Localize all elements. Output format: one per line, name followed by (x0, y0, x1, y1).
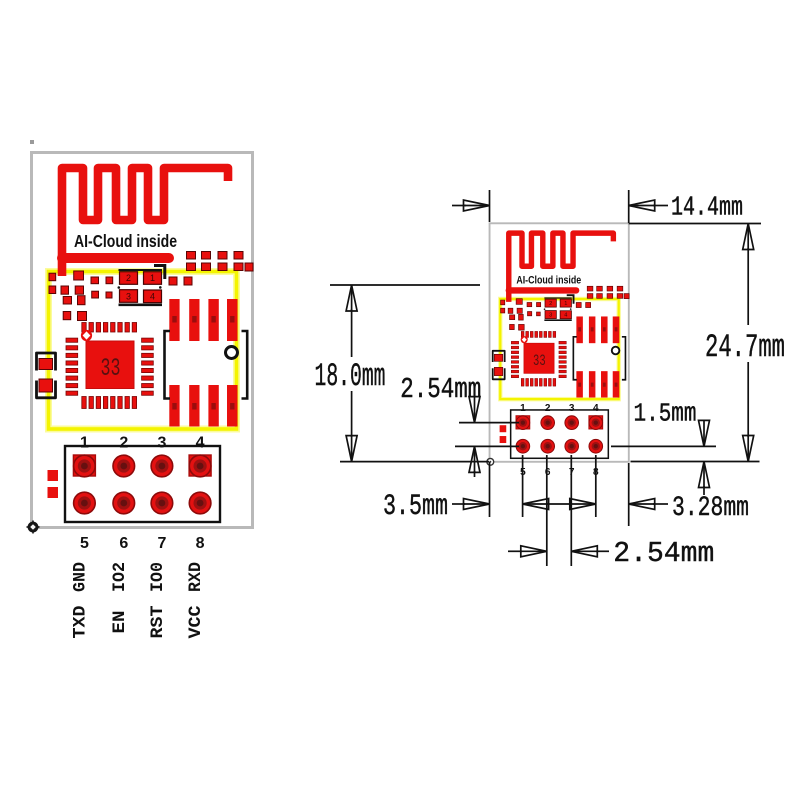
dimension 3.28mm (570, 499, 596, 510)
dimension 3.5mm (452, 503, 465, 505)
left PCB top view (32, 153, 254, 553)
svg-text:GND: GND (70, 562, 90, 592)
svg-text:3.28mm: 3.28mm (672, 493, 749, 524)
svg-text:14.4mm: 14.4mm (671, 194, 743, 224)
corner marker (left board) (27, 521, 40, 534)
svg-text:24.7mm: 24.7mm (705, 329, 785, 366)
svg-text:TXD: TXD (70, 606, 90, 639)
svg-text:18.0mm: 18.0mm (315, 358, 386, 395)
dimension 3.5mm and 3.28mm extension lines (489, 462, 491, 517)
dimension 24.7mm (board height) (629, 223, 761, 225)
svg-text:3.5mm: 3.5mm (383, 490, 448, 524)
dimension 2.54mm (pin row pitch) (459, 422, 519, 424)
right PCB (scaled copy) (490, 223, 630, 478)
svg-text:2.54mm: 2.54mm (613, 537, 714, 570)
svg-text:IO2: IO2 (110, 562, 130, 592)
svg-text:2.54mm: 2.54mm (400, 373, 481, 406)
dimension 2.54mm (pin column pitch) (546, 455, 548, 566)
svg-text:EN: EN (110, 611, 130, 634)
dimension 18.0mm (330, 284, 480, 286)
svg-text:1.5mm: 1.5mm (634, 400, 697, 429)
svg-text:IO0: IO0 (148, 562, 168, 592)
fiducial mark top-left (30, 140, 34, 144)
svg-text:RXD: RXD (186, 562, 206, 592)
corner marker (right board) (487, 458, 494, 465)
svg-text:RST: RST (148, 606, 168, 639)
dimension 14.4mm (board width) (489, 190, 491, 222)
dimension 1.5mm (611, 445, 716, 447)
svg-text:VCC: VCC (186, 605, 206, 639)
